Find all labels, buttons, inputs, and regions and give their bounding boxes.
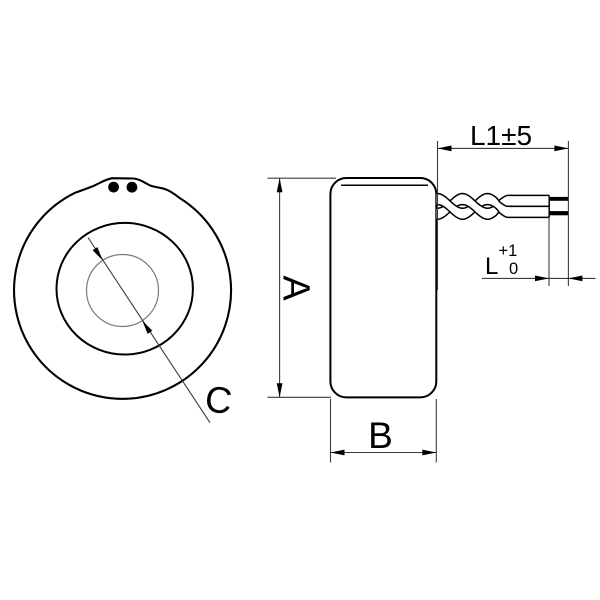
wire strand A falling segment (over) — [437, 194, 465, 220]
dimension line C (diagonal) — [88, 238, 210, 423]
insulation end of top wire — [548, 195, 550, 206]
svg-text:0: 0 — [509, 260, 518, 278]
svg-text:B: B — [368, 415, 393, 456]
tolerance +1 — [499, 242, 518, 260]
label L1±5 — [470, 120, 532, 151]
dimension line B — [331, 452, 437, 454]
A dimension bottom extension line — [268, 396, 332, 398]
wire strand A falling to bottom parallel run (over) — [486, 194, 550, 218]
wire strand B rising to top parallel run (under) — [486, 195, 550, 219]
label L — [485, 253, 498, 280]
wire strand B falling segment (over) — [461, 194, 490, 220]
middle circle (coil winding outline) — [57, 223, 193, 355]
wire strand B rising segment (under) — [437, 194, 465, 220]
A dimension top extension line — [268, 177, 337, 179]
lead wire cross-section dot, left — [108, 182, 119, 193]
dimension line L (bare end length) — [482, 277, 596, 279]
extension line at wire tip (x=568.4) — [567, 141, 569, 286]
svg-text:L: L — [485, 253, 498, 280]
label A (rotated) — [275, 275, 317, 301]
arrowhead on inner circle, lower-right — [142, 321, 152, 334]
svg-text:+1: +1 — [499, 242, 518, 260]
insulation end of bottom wire — [548, 206, 550, 217]
bare conductor end, bottom wire — [549, 211, 568, 215]
lead wire cross-section dot, right — [126, 182, 137, 193]
L1 left arrowhead — [438, 146, 452, 152]
B right arrowhead — [422, 450, 436, 456]
B left arrowhead — [331, 450, 345, 456]
B dimension left extension line — [330, 399, 332, 463]
tolerance 0 — [509, 260, 518, 278]
A top arrowhead — [277, 178, 283, 192]
dimension line A — [279, 178, 281, 397]
L left arrowhead (outside, pointing right) — [535, 276, 549, 282]
wire strand A rising segment (under) — [461, 194, 490, 220]
label C — [203, 378, 235, 422]
L right arrowhead (outside, pointing left) — [568, 276, 582, 282]
extension line at insulation end (x=549) — [548, 218, 550, 287]
dimension line L1 — [438, 147, 569, 149]
label B — [368, 415, 393, 456]
A bottom arrowhead — [277, 383, 283, 397]
arrowhead on inner circle, upper-left — [93, 247, 103, 260]
inner circle (centre hole) — [87, 255, 159, 327]
body top edge line — [341, 184, 428, 186]
side view: body outline — [330, 178, 436, 397]
svg-text:A: A — [275, 275, 317, 301]
bare conductor end, top wire — [549, 197, 568, 201]
svg-text:C: C — [203, 378, 235, 422]
L1 right arrowhead — [554, 146, 568, 152]
front view: outer body outline with lead-exit bump — [14, 178, 231, 399]
svg-text:L1±5: L1±5 — [470, 120, 532, 151]
B dimension right extension line — [435, 399, 437, 463]
extension line at body right edge (x=437.5) — [437, 141, 439, 290]
